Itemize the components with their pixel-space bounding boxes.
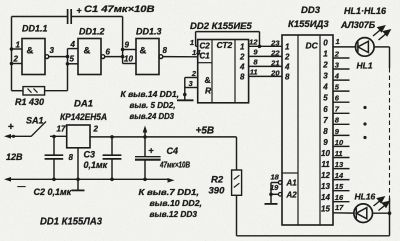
svg-text:2: 2 bbox=[239, 52, 245, 61]
label gnd pins bbox=[139, 188, 203, 219]
pin label DD3 21 bbox=[270, 59, 279, 68]
svg-text:DD1.2: DD1.2 bbox=[79, 27, 105, 37]
svg-text:+: + bbox=[77, 6, 82, 16]
svg-text:2: 2 bbox=[191, 69, 197, 78]
svg-text:+: + bbox=[149, 146, 154, 156]
pin label DD3 20 bbox=[270, 69, 280, 78]
svg-text:1: 1 bbox=[240, 42, 245, 51]
svg-text:2: 2 bbox=[334, 49, 340, 58]
capacitor C3 bbox=[103, 137, 122, 179]
wire left input rail bbox=[12, 17, 24, 91]
led HL1 bbox=[356, 38, 375, 57]
svg-text:10: 10 bbox=[124, 55, 133, 64]
ground DA1 pin8 bbox=[72, 179, 85, 190]
label DA1 bbox=[74, 99, 93, 110]
svg-text:6: 6 bbox=[106, 48, 111, 57]
svg-text:5: 5 bbox=[70, 55, 75, 64]
svg-text:15: 15 bbox=[321, 204, 330, 213]
svg-text:DA1: DA1 bbox=[74, 99, 93, 110]
svg-text:С2: С2 bbox=[200, 42, 211, 51]
svg-text:&: & bbox=[84, 46, 91, 57]
svg-text:R1 430: R1 430 bbox=[15, 97, 44, 107]
gate DD1.3 bbox=[136, 39, 198, 75]
pin labels DD1.3 bbox=[124, 41, 168, 64]
node DD1.2 input loop bbox=[66, 49, 78, 66]
label AL307B bbox=[340, 20, 376, 30]
svg-text:К выв.14 DD1,: К выв.14 DD1, bbox=[121, 90, 180, 99]
svg-text:—: — bbox=[18, 182, 26, 191]
label vcc pins bbox=[121, 90, 180, 121]
pin label DD2 9 bbox=[253, 48, 258, 57]
wire DD2 reset pins 2,3 bbox=[183, 78, 198, 100]
svg-text:3: 3 bbox=[50, 46, 55, 55]
svg-text:А2: А2 bbox=[286, 191, 298, 200]
node DD1.3 input loop bbox=[121, 48, 136, 64]
svg-text:КР142ЕН5А: КР142ЕН5А bbox=[60, 112, 107, 123]
svg-text:DD1 К155ЛА3: DD1 К155ЛА3 bbox=[40, 217, 102, 228]
svg-text:20: 20 bbox=[270, 69, 280, 78]
wire +5V rail bbox=[90, 135, 237, 139]
svg-text:С1: С1 bbox=[200, 52, 211, 61]
wire SA1 to DA1 bbox=[50, 135, 67, 139]
capacitor C2 bbox=[45, 137, 64, 180]
gate DD1.2 bbox=[78, 39, 123, 75]
svg-text:+5В: +5В bbox=[196, 126, 215, 137]
svg-text:АЛ307Б: АЛ307Б bbox=[340, 20, 376, 30]
svg-text:С1 47мк×10В: С1 47мк×10В bbox=[84, 4, 155, 15]
svg-text:9: 9 bbox=[323, 138, 328, 147]
pin labels DD2 left bbox=[189, 38, 202, 88]
svg-text:12: 12 bbox=[321, 171, 330, 180]
gate DD1.3 label bbox=[136, 27, 162, 37]
counter DD2 box bbox=[198, 40, 249, 103]
svg-text:17: 17 bbox=[57, 125, 66, 134]
svg-text:R: R bbox=[205, 86, 212, 96]
capacitor C4 bbox=[135, 137, 161, 179]
svg-text:К155ИД3: К155ИД3 bbox=[288, 19, 329, 30]
svg-text:С2 0,1мк: С2 0,1мк bbox=[34, 187, 72, 197]
svg-text:0: 0 bbox=[323, 38, 328, 47]
svg-text:16: 16 bbox=[335, 193, 344, 202]
svg-text:2: 2 bbox=[93, 125, 99, 134]
svg-text:2: 2 bbox=[322, 61, 328, 70]
led HL16 bbox=[354, 204, 373, 223]
svg-text:22: 22 bbox=[270, 49, 280, 58]
svg-text:13: 13 bbox=[321, 182, 330, 191]
pin label DD3 1 bbox=[336, 37, 340, 46]
svg-text:0,1мк: 0,1мк bbox=[84, 160, 108, 170]
pin label DD2 12 bbox=[249, 38, 258, 47]
gate DD1.1 label bbox=[22, 24, 48, 34]
svg-text:8: 8 bbox=[323, 127, 328, 136]
svg-text:4: 4 bbox=[284, 62, 290, 71]
svg-text:выв.24 DD3: выв.24 DD3 bbox=[130, 112, 175, 121]
wire bottom gnd rail bbox=[9, 178, 175, 183]
label C3 bbox=[84, 150, 108, 171]
led arrows HL1 bbox=[373, 26, 390, 40]
label HL1-HL16 bbox=[344, 6, 387, 16]
svg-text:47мк×10В: 47мк×10В bbox=[159, 161, 190, 170]
pin label DD3 23 bbox=[270, 39, 280, 48]
wire to vcc pins arrow bbox=[143, 126, 148, 137]
svg-text:R2: R2 bbox=[211, 175, 224, 186]
counter DD2 internal labels bbox=[200, 40, 246, 96]
decoder DD3 box bbox=[282, 35, 333, 225]
label R2 bbox=[209, 175, 226, 197]
svg-text:21: 21 bbox=[270, 59, 279, 68]
gate DD1.2 label bbox=[79, 27, 105, 37]
capacitor C1 bbox=[68, 6, 82, 25]
pin labels DD1.1 bbox=[13, 41, 55, 64]
label R1 bbox=[15, 97, 44, 107]
label DD3 type bbox=[288, 19, 329, 30]
svg-text:14: 14 bbox=[192, 48, 201, 57]
svg-text:+: + bbox=[8, 122, 14, 133]
svg-text:12: 12 bbox=[249, 38, 258, 47]
terminal minus bbox=[4, 177, 26, 191]
svg-text:HL1·HL16: HL1·HL16 bbox=[344, 6, 387, 16]
pin label DD2 8 bbox=[253, 58, 258, 67]
label HL1 bbox=[357, 61, 373, 71]
svg-text:3: 3 bbox=[323, 72, 328, 81]
svg-text:2: 2 bbox=[13, 55, 19, 64]
wire DD2 out 2 to DD3 bbox=[249, 55, 282, 57]
svg-text:5: 5 bbox=[323, 94, 328, 103]
decoder DD3 output stubs and labels bbox=[321, 38, 349, 213]
svg-text:1: 1 bbox=[336, 37, 340, 46]
svg-text:С3: С3 bbox=[84, 150, 96, 160]
svg-text:выв.10 DD2,: выв.10 DD2, bbox=[150, 199, 203, 208]
switch SA1 bbox=[26, 116, 46, 137]
svg-text:С4: С4 bbox=[167, 146, 179, 156]
svg-text:&: & bbox=[140, 46, 147, 57]
label DD2 bbox=[190, 21, 253, 32]
led arrows HL16 bbox=[374, 197, 390, 211]
label 12V bbox=[6, 152, 23, 162]
wire +5V to R2 bbox=[236, 137, 238, 170]
label DD3 bbox=[301, 5, 321, 16]
svg-text:23: 23 bbox=[270, 39, 280, 48]
svg-text:DD2 К155ИЕ5: DD2 К155ИЕ5 bbox=[190, 21, 253, 32]
resistor R1 bbox=[23, 87, 45, 95]
node DD1.1 input junctions bbox=[10, 47, 14, 65]
svg-text:&: & bbox=[27, 46, 34, 57]
svg-text:13: 13 bbox=[335, 160, 344, 169]
svg-text:390: 390 bbox=[209, 186, 226, 197]
svg-text:10: 10 bbox=[321, 149, 330, 158]
wire DD2 out 1 to DD3 bbox=[249, 45, 282, 47]
wire DD2 pin12 to pin1 feedback bbox=[196, 32, 262, 48]
label +5V bbox=[196, 126, 215, 137]
svg-text:9: 9 bbox=[125, 41, 130, 50]
svg-text:14: 14 bbox=[321, 193, 330, 202]
svg-text:СТ2: СТ2 bbox=[217, 40, 233, 50]
svg-text:SA1: SA1 bbox=[26, 116, 44, 126]
svg-text:18: 18 bbox=[271, 173, 280, 182]
gate DD1.1 bbox=[12, 39, 68, 75]
label HL16 bbox=[355, 192, 376, 202]
wire R2 to bottom bbox=[236, 195, 238, 236]
svg-text:10: 10 bbox=[335, 138, 344, 147]
wire right cathode rail bbox=[237, 47, 390, 236]
svg-text:11: 11 bbox=[335, 149, 343, 158]
svg-text:11: 11 bbox=[321, 160, 330, 169]
svg-text:4: 4 bbox=[322, 83, 328, 92]
ground A1 A2 bbox=[265, 203, 278, 205]
label DA1 type bbox=[60, 112, 107, 123]
pin label DD3 17 bbox=[335, 203, 344, 212]
decoder DD3 internal labels bbox=[284, 41, 319, 82]
svg-text:12В: 12В bbox=[6, 152, 23, 162]
regulator DA1 bbox=[57, 125, 99, 180]
wire C1 feedback top rail bbox=[12, 17, 123, 51]
svg-text:14: 14 bbox=[335, 171, 344, 180]
wire DD2 out 8 to DD3 bbox=[249, 75, 282, 77]
svg-text:К выв.7 DD1,: К выв.7 DD1, bbox=[139, 188, 200, 197]
svg-text:&: & bbox=[205, 75, 211, 85]
label C2 bbox=[34, 187, 72, 197]
svg-text:1: 1 bbox=[285, 42, 290, 51]
node ellipsis HL2-HL15 bbox=[363, 106, 366, 139]
label C1 value bbox=[84, 4, 155, 15]
svg-text:выв. 5 DD2,: выв. 5 DD2, bbox=[130, 101, 176, 110]
pin label DD3 22 bbox=[270, 49, 280, 58]
svg-text:1: 1 bbox=[323, 50, 328, 59]
svg-text:HL16: HL16 bbox=[355, 192, 376, 202]
wire HL1 to rail bbox=[374, 46, 389, 48]
svg-text:4: 4 bbox=[334, 71, 340, 80]
svg-text:DD3: DD3 bbox=[301, 5, 321, 16]
resistor R2 bbox=[232, 170, 242, 195]
svg-text:выв.12 DD3: выв.12 DD3 bbox=[150, 210, 198, 219]
pin label DD2 11 bbox=[250, 68, 258, 77]
wire R1 feedback bbox=[45, 64, 68, 91]
svg-text:DD1.3: DD1.3 bbox=[136, 27, 162, 37]
svg-text:8: 8 bbox=[285, 72, 290, 81]
svg-text:1: 1 bbox=[16, 41, 21, 50]
svg-text:DC: DC bbox=[306, 41, 319, 51]
pin labels DD1.2 bbox=[70, 40, 111, 64]
svg-text:11: 11 bbox=[250, 68, 258, 77]
svg-text:8: 8 bbox=[69, 153, 74, 162]
terminal plus 12V bbox=[4, 122, 31, 139]
label DD1 type bbox=[40, 217, 102, 228]
svg-text:6: 6 bbox=[323, 105, 328, 114]
svg-text:А1: А1 bbox=[286, 179, 298, 188]
svg-text:8: 8 bbox=[240, 72, 245, 81]
svg-text:8: 8 bbox=[163, 46, 168, 55]
svg-text:4: 4 bbox=[239, 62, 245, 71]
wire HL16 to rail bbox=[373, 211, 392, 215]
svg-text:7: 7 bbox=[323, 116, 328, 125]
svg-text:17: 17 bbox=[335, 203, 344, 212]
svg-text:DD1.1: DD1.1 bbox=[22, 24, 48, 34]
svg-text:1: 1 bbox=[190, 38, 194, 47]
wire DD3 out0 to HL1 bbox=[333, 46, 356, 48]
node A1 A2 strobe bbox=[269, 173, 297, 204]
ground DD2 reset bbox=[177, 99, 194, 101]
svg-text:2: 2 bbox=[284, 52, 290, 61]
wire DD2 out 4 to DD3 bbox=[249, 65, 282, 67]
wire DD3 out15 to HL16 bbox=[333, 212, 354, 214]
svg-text:4: 4 bbox=[70, 40, 76, 49]
label C4 bbox=[159, 146, 190, 170]
svg-text:15: 15 bbox=[335, 182, 344, 191]
svg-text:HL1: HL1 bbox=[357, 61, 373, 71]
